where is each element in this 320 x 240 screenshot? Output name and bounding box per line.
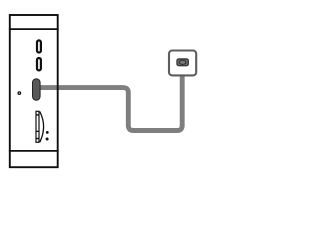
plug head in outlet [177, 59, 188, 66]
button oval 2 [37, 58, 41, 70]
device top divider line [9, 28, 59, 30]
card slot icon: door arc [40, 112, 44, 143]
indicator dot lower [46, 138, 49, 141]
card slot icon: rung C [36, 138, 39, 139]
device bottom divider line [9, 150, 59, 152]
button oval 1 [37, 40, 41, 52]
card slot icon: rung B [36, 131, 39, 132]
wall outlet box [169, 51, 196, 76]
plug head ellipse [179, 60, 186, 64]
wire power-cable [40, 63, 182, 131]
device body outline [10, 15, 58, 167]
indicator dot upper [46, 131, 49, 134]
card slot icon: outline rect [36, 111, 39, 142]
reset hole dot [18, 92, 21, 95]
card slot icon: rung A [36, 114, 39, 115]
power connector plug (dark) [33, 79, 41, 100]
